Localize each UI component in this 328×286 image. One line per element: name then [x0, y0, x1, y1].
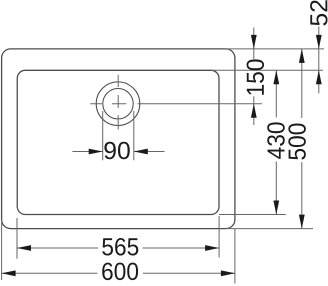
dimension 52 label — [310, 0, 327, 25]
dimension 500 line — [301, 49, 303, 229]
extension line inner left bottom — [16, 218, 18, 259]
dimension 565 label — [102, 238, 138, 255]
extension line inner right bottom — [218, 216, 220, 258]
dimension 500 label — [288, 124, 305, 160]
extension line inner bottom right — [219, 214, 286, 216]
dimension 430 line — [275, 70, 277, 214]
dimension 565 line — [17, 247, 219, 249]
dimension 52 top arrow — [316, 35, 322, 49]
dimension 52 line — [318, 27, 320, 94]
drain pipe right line — [133, 111, 135, 160]
drain inner circle — [103, 89, 133, 119]
extension line inner top right — [211, 69, 323, 71]
dimension 150 label — [247, 59, 264, 94]
dimension 150 top arrow — [251, 35, 257, 49]
dimension 600 label — [102, 263, 138, 280]
dimension 565 right arrow — [205, 245, 219, 251]
dimension 90 line — [72, 151, 164, 153]
dimension 52 bottom arrow — [316, 70, 322, 84]
dimension 150 line — [253, 28, 255, 126]
drain pipe left line — [102, 111, 104, 160]
dimension 90 left arrow — [89, 149, 103, 155]
dimension 500 top arrow — [299, 49, 305, 63]
drain outer circle — [96, 82, 140, 126]
dimension 500 bottom arrow — [299, 215, 305, 229]
extension line top edge right — [226, 48, 324, 50]
drain vertical centerline — [117, 75, 119, 130]
sink outer outline — [2, 49, 235, 229]
extension line outer bottom right — [226, 228, 313, 230]
dimension 90 label — [104, 142, 129, 159]
dimension 430 label — [267, 122, 284, 159]
dimension 565 left arrow — [17, 245, 31, 251]
dimension 150 bottom arrow — [251, 104, 257, 118]
drain horizontal centerline — [90, 103, 262, 105]
extension line outer left bottom — [1, 220, 3, 280]
dimension 600 line — [2, 272, 235, 274]
extension line outer right bottom — [234, 229, 236, 284]
sink inner bowl outline — [17, 70, 219, 214]
dimension 430 top arrow — [273, 70, 279, 84]
dimension 600 right arrow — [221, 270, 235, 276]
dimension 600 left arrow — [2, 270, 16, 276]
dimension 90 right arrow — [134, 149, 148, 155]
dimension 430 bottom arrow — [273, 201, 279, 215]
